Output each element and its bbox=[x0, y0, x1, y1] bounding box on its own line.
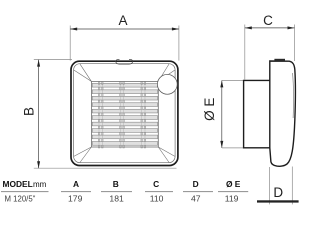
grille frame bbox=[91, 81, 158, 147]
front view top latch tab bbox=[116, 61, 133, 64]
corner bevel lines bottom-right bbox=[158, 147, 175, 163]
side view duct bbox=[244, 80, 270, 147]
side view inner contour line bbox=[292, 73, 295, 118]
svg-text:D: D bbox=[193, 179, 199, 189]
corner bevel lines bottom-left bbox=[74, 147, 92, 163]
dimension D bbox=[269, 167, 292, 205]
table data row bbox=[5, 193, 239, 203]
svg-text:B: B bbox=[22, 107, 37, 116]
side view cover bbox=[270, 61, 296, 166]
side view latch tab bbox=[274, 59, 285, 61]
table rules bbox=[1, 191, 248, 193]
svg-text:110: 110 bbox=[150, 193, 164, 203]
svg-text:A: A bbox=[118, 13, 127, 28]
svg-text:181: 181 bbox=[109, 193, 124, 203]
svg-text:C: C bbox=[153, 179, 159, 189]
svg-text:Ø E: Ø E bbox=[202, 98, 217, 121]
svg-text:B: B bbox=[113, 179, 119, 189]
svg-text:179: 179 bbox=[68, 193, 83, 203]
dimension ØE bbox=[222, 80, 244, 147]
grille vertical ribs bbox=[99, 81, 145, 147]
front view outer frame bbox=[71, 61, 178, 165]
front view inner bezel line bbox=[74, 64, 176, 163]
svg-text:MODEL: MODEL bbox=[3, 179, 33, 189]
dimension A bbox=[70, 26, 179, 61]
svg-text:D: D bbox=[273, 185, 283, 200]
svg-text:A: A bbox=[73, 179, 79, 189]
dimension B bbox=[34, 60, 177, 169]
svg-text:M 120/5": M 120/5" bbox=[5, 195, 36, 204]
svg-text:119: 119 bbox=[225, 193, 239, 203]
table header row bbox=[3, 179, 241, 189]
svg-text:Ø E: Ø E bbox=[226, 179, 241, 189]
corner bevel lines top-right bbox=[158, 64, 175, 82]
svg-text:mm: mm bbox=[33, 180, 47, 189]
grille louvre slats bbox=[92, 83, 157, 145]
corner bevel lines top-left bbox=[74, 64, 92, 82]
front view indicator circle bbox=[157, 74, 177, 94]
svg-text:C: C bbox=[263, 13, 273, 28]
dimension C bbox=[245, 25, 295, 80]
svg-text:47: 47 bbox=[191, 193, 201, 203]
grille rib ticks bbox=[98, 82, 145, 148]
